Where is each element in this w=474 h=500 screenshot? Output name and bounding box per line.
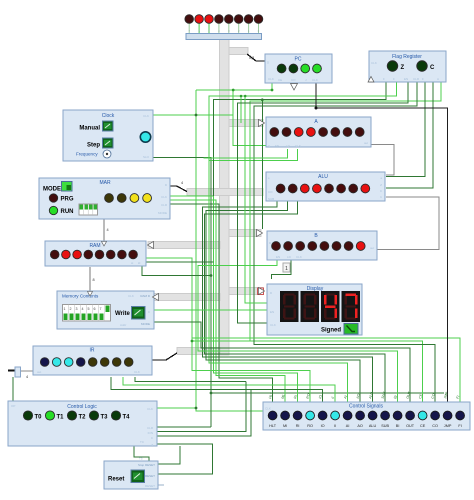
seven-seg digit 4 showing 7 — [342, 291, 361, 322]
bus branch to IR — [177, 348, 220, 355]
junction RO line — [191, 340, 194, 343]
svg-text:SLO: SLO — [143, 155, 150, 159]
svg-text:Reset: Reset — [108, 477, 124, 483]
MAR box — [39, 178, 170, 219]
svg-text:4: 4 — [181, 181, 183, 185]
wire B register output to ALU — [377, 197, 439, 250]
svg-text:CO: CO — [268, 190, 273, 194]
svg-text:T5: T5 — [139, 457, 143, 461]
LED ALU bit5 on — [300, 184, 309, 193]
LED AI — [343, 411, 352, 420]
svg-text:AO: AO — [357, 424, 363, 428]
IR opcode splitter — [15, 367, 21, 377]
LED PRG off — [49, 194, 57, 202]
svg-text:RO: RO — [307, 424, 313, 428]
svg-text:0,3: 0,3 — [249, 56, 254, 60]
svg-text:Stop RESET: Stop RESET — [138, 463, 155, 467]
LED bus bit5 on — [205, 15, 214, 24]
svg-text:CLK: CLK — [147, 407, 153, 411]
LED RAM bit7 — [50, 250, 59, 259]
wire JMP drop — [193, 338, 461, 402]
arrow PC output — [291, 84, 298, 91]
LED clock output — [140, 132, 150, 142]
svg-text:RAM: RAM — [89, 243, 100, 249]
svg-text:T4: T4 — [123, 415, 131, 421]
svg-text:ALU: ALU — [369, 424, 377, 428]
junction corridor A CLK — [232, 89, 235, 92]
svg-text:OP: OP — [11, 404, 15, 408]
wire Control Logic CLK feed — [157, 407, 196, 409]
svg-text:Flag Register: Flag Register — [392, 54, 422, 60]
LED bus bit0 — [254, 15, 263, 24]
svg-text:T0: T0 — [35, 415, 43, 421]
svg-text:CLK: CLK — [312, 78, 318, 82]
svg-text:F: F — [422, 77, 424, 81]
svg-text:2: 2 — [70, 307, 72, 311]
LED bus bit6 on — [195, 15, 204, 24]
svg-text:CLR: CLR — [413, 77, 420, 81]
svg-text:OUT: OUT — [406, 424, 415, 428]
wire A register bottom pin 2 — [204, 149, 288, 158]
svg-text:RAM D: RAM D — [140, 294, 151, 298]
svg-text:Addr: Addr — [120, 323, 126, 327]
svg-text:7: 7 — [100, 307, 102, 311]
bus branch to B register — [229, 230, 261, 237]
LED ALU bit2 — [337, 184, 346, 193]
LED RAM bit4 — [84, 250, 93, 259]
Clock box U_clock — [63, 110, 153, 161]
svg-text:CLR: CLR — [161, 203, 168, 207]
bus output LED row stems — [189, 24, 258, 34]
constant 1 label box — [283, 263, 290, 272]
DIP switch 4x address — [79, 204, 98, 215]
LED RI — [293, 411, 302, 420]
wire A register CLK feed from corridor — [233, 90, 266, 146]
LED ALU bit4 on — [313, 184, 322, 193]
wire SUB feed and drop — [205, 201, 386, 402]
LED A bit4 on — [307, 128, 316, 137]
wire OUT feed from Memory Contents and drop — [154, 322, 410, 402]
svg-text:SUB: SUB — [268, 197, 274, 201]
wire Reset unused stub — [158, 484, 164, 486]
bus branch to MAR and ALU — [187, 189, 263, 196]
B register box — [267, 231, 377, 260]
svg-text:3: 3 — [76, 307, 78, 311]
wire Flag Z input from ALU — [386, 82, 425, 177]
LED bus bit3 — [225, 15, 234, 24]
seven-seg digit 2 (blank) — [301, 291, 320, 322]
Control Signals box — [263, 402, 470, 430]
svg-text:1: 1 — [64, 307, 66, 311]
svg-text:JMP: JMP — [444, 424, 452, 428]
LED ALU bit1 — [349, 184, 358, 193]
wire Reset stop to Control Logic — [158, 446, 180, 464]
svg-text:T3: T3 — [101, 415, 109, 421]
svg-text:IO: IO — [321, 424, 325, 428]
svg-text:CLK: CLK — [268, 77, 274, 81]
svg-text:T1: T1 — [57, 415, 65, 421]
LED RAM bit2 — [106, 250, 115, 259]
wire MAR bus diagonal — [170, 186, 187, 192]
svg-text:MI: MI — [283, 424, 287, 428]
wire RAM right pin 2 — [146, 261, 214, 263]
ALU box — [266, 172, 385, 201]
RAM box — [45, 241, 146, 266]
LED B bit1 — [344, 242, 353, 251]
LED FI — [456, 411, 465, 420]
LED B bit2 — [332, 242, 341, 251]
svg-text:4: 4 — [107, 228, 109, 232]
junction long dark — [210, 392, 213, 395]
switch Signed — [344, 324, 358, 335]
Memory Contents box — [57, 291, 154, 329]
wire IR splitter to IR — [20, 370, 33, 372]
wire AO feed from ALU and drop — [206, 201, 360, 402]
wire Control Logic bottom to Reset top — [134, 446, 149, 461]
svg-text:EN: EN — [270, 310, 274, 314]
svg-text:CLR: CLR — [147, 426, 154, 430]
LED B bit0 on — [356, 242, 365, 251]
svg-text:MODE: MODE — [141, 322, 150, 326]
wire Control Logic pin 2 — [157, 382, 246, 432]
LED ALU bit7 — [276, 184, 285, 193]
svg-text:ION: ION — [148, 431, 153, 435]
wire RAM write line — [142, 265, 211, 276]
wire long dark horizontal to FI drop — [211, 392, 444, 394]
svg-text:Signed: Signed — [321, 328, 341, 334]
wire Control Logic to Reset loop — [157, 444, 213, 474]
arrow bus into RAM — [148, 242, 154, 249]
svg-text:Step: Step — [87, 143, 100, 149]
LED A bit0 — [355, 128, 364, 137]
svg-text:PC: PC — [295, 57, 302, 63]
LED PC bit1 on — [301, 64, 310, 73]
svg-text:out: out — [364, 141, 368, 145]
svg-text:C: C — [430, 65, 435, 71]
LED PC bit3 — [277, 64, 286, 73]
wire corridor vertical to B area — [261, 100, 263, 229]
LED AO — [356, 411, 365, 420]
svg-text:1: 1 — [285, 266, 288, 272]
wire PC bus diagonal — [247, 54, 265, 61]
LED ALU bit0 on — [361, 184, 370, 193]
LED B bit3 — [320, 242, 329, 251]
bus LED row splitter bar — [186, 34, 262, 40]
wire CE long left stub — [192, 340, 250, 342]
LED T1 on — [45, 411, 54, 420]
wire corridor vertical short — [240, 96, 242, 123]
bus branch to A register — [229, 120, 263, 127]
svg-text:Control Logic: Control Logic — [67, 404, 97, 410]
LED bus bit4 — [215, 15, 224, 24]
LED CO — [431, 411, 440, 420]
LED B bit7 — [272, 242, 281, 251]
svg-text:MODE: MODE — [43, 187, 61, 193]
LED RO on — [306, 411, 315, 420]
LED A bit3 — [319, 128, 328, 137]
IR box — [33, 346, 152, 375]
svg-text:EN: EN — [275, 144, 279, 148]
svg-text:CO: CO — [432, 424, 438, 428]
LED PC bit2 — [289, 64, 298, 73]
junction PC black — [315, 107, 318, 110]
wire Flag Register pin staircase 1 — [214, 82, 387, 196]
wire Control Logic pin to bundle — [157, 426, 211, 428]
LED ALU — [368, 411, 377, 420]
LED A bit6 — [282, 128, 291, 137]
knob Frequency — [103, 150, 111, 158]
bus branch to Memory Contents — [152, 294, 220, 301]
LED RAM bit5 on — [73, 250, 82, 259]
wire RO feed from RAM and drop (active) — [146, 258, 310, 402]
LED IR bit7 — [40, 358, 49, 367]
svg-text:4: 4 — [82, 307, 84, 311]
wire IR bus diagonal — [152, 353, 177, 360]
LED IR bit4 — [76, 358, 85, 367]
arrow bus into Display — [259, 288, 265, 295]
Flag Register box — [368, 51, 446, 82]
arrow Memory Contents data input — [88, 292, 93, 297]
svg-text:T2: T2 — [79, 415, 87, 421]
probe marker near Display input — [258, 288, 264, 295]
LED PC bit0 on — [313, 64, 322, 73]
svg-text:CLK: CLK — [128, 294, 134, 298]
LED B bit4 — [308, 242, 317, 251]
svg-text:HLT: HLT — [269, 424, 277, 428]
wire IR splitter input stub — [8, 370, 15, 372]
wire Display input 2 from Memory Contents — [154, 309, 267, 311]
svg-text:BI: BI — [396, 424, 400, 428]
svg-text:6: 6 — [94, 307, 96, 311]
wire RAM data to Memory Contents — [89, 267, 91, 291]
bus trunk vertical main data bus — [220, 37, 230, 355]
LED bus bit7 — [185, 15, 194, 24]
LED IR bit1 — [112, 358, 121, 367]
LED T0 — [23, 411, 32, 420]
svg-text:F: F — [393, 77, 395, 81]
wire Clock second output dark — [153, 158, 211, 428]
pin numbers under bus LEDs — [188, 29, 259, 33]
svg-text:CLK: CLK — [134, 370, 140, 374]
svg-text:EN: EN — [404, 77, 408, 81]
Control Logic box — [8, 401, 157, 447]
LED RUN on — [49, 206, 57, 214]
junction clock CLK — [195, 114, 198, 117]
wire Flag C input from ALU — [386, 82, 433, 188]
DIP switch 8x data — [63, 305, 111, 322]
LED IR bit0 — [124, 358, 133, 367]
LED II on — [331, 411, 340, 420]
LED C off — [417, 61, 427, 71]
switch MODE — [62, 182, 73, 192]
wire Flag Register pin staircase 2 — [209, 82, 397, 161]
button Step — [103, 138, 114, 148]
LED B bit5 — [296, 242, 305, 251]
PC box — [265, 54, 332, 90]
button Reset — [131, 470, 145, 483]
svg-text:IR: IR — [90, 348, 95, 354]
LED MAR bit1 on — [130, 194, 139, 203]
wire IO feed from IR and drop — [111, 377, 323, 402]
wire RI feed and drop — [170, 196, 298, 402]
svg-text:Z: Z — [380, 183, 382, 187]
svg-text:CLK: CLK — [295, 144, 301, 148]
svg-text:SUB: SUB — [381, 424, 389, 428]
wire CO drop — [254, 82, 435, 402]
LED IR bit6 on — [52, 358, 61, 367]
LED A bit1 — [343, 128, 352, 137]
LED bus bit1 — [244, 15, 253, 24]
svg-text:F: F — [383, 77, 385, 81]
svg-text:8: 8 — [93, 278, 95, 282]
wire PC CLK drop — [196, 83, 272, 90]
wire HLT feed and drop — [170, 204, 273, 402]
LED Z off — [387, 61, 397, 71]
LED A bit7 — [270, 128, 279, 137]
LED BI — [393, 411, 402, 420]
wire CLK vertical trunk x196 down to Control Signals — [196, 90, 263, 411]
wire Display enable from corridor — [245, 96, 267, 303]
LED RAM bit0 — [129, 250, 138, 259]
LED IO — [318, 411, 327, 420]
LED OUT — [406, 411, 415, 420]
wire A register output to ALU — [371, 145, 394, 176]
svg-text:MODE: MODE — [158, 211, 167, 215]
svg-text:CE: CE — [420, 424, 426, 428]
LED MI — [281, 411, 290, 420]
wire AI feed from A register and drop — [209, 149, 348, 402]
svg-text:II: II — [334, 424, 336, 428]
svg-text:CLK: CLK — [161, 195, 167, 199]
LED IR bit5 on — [64, 358, 73, 367]
svg-text:FI: FI — [458, 424, 461, 428]
button Manual — [103, 121, 114, 131]
bus branch to RAM — [148, 242, 220, 249]
wire BI feed from B register and drop — [198, 260, 398, 402]
svg-text:ALU: ALU — [318, 174, 328, 180]
junction CLK control logic — [195, 407, 198, 410]
wire ALU-enable feed and drop — [203, 201, 373, 402]
arrow RAM address input — [102, 242, 107, 247]
LED MAR bit2 off — [117, 194, 126, 203]
svg-text:st: st — [131, 261, 134, 265]
LED IR bit3 — [88, 358, 97, 367]
wire CLK net from Clock to corridor — [153, 114, 233, 116]
junction PC clk — [271, 89, 274, 92]
LED SUB — [381, 411, 390, 420]
svg-text:Frequency: Frequency — [76, 152, 98, 157]
svg-text:ld: ld — [138, 261, 141, 265]
svg-text:A: A — [437, 77, 439, 81]
LED T2 — [67, 411, 76, 420]
LED bus bit2 — [234, 15, 243, 24]
rotated net labels above Control Signals — [268, 390, 460, 399]
svg-text:RI: RI — [296, 424, 300, 428]
svg-text:RUN: RUN — [61, 209, 74, 215]
arrow bus into B register — [257, 230, 263, 237]
svg-text:CLK: CLK — [270, 323, 276, 327]
svg-text:PRG: PRG — [61, 197, 74, 203]
junction corridor short — [240, 95, 243, 98]
LED ALU bit3 — [325, 184, 334, 193]
svg-text:CLK: CLK — [143, 114, 149, 118]
svg-text:Write: Write — [115, 311, 131, 317]
Display box — [267, 284, 362, 335]
LED T4 — [111, 411, 120, 420]
bus branch to PC — [229, 48, 248, 55]
svg-text:CLK: CLK — [296, 255, 302, 259]
svg-text:out: out — [37, 370, 41, 374]
arrow bus into A register — [259, 120, 265, 127]
svg-text:Clock: Clock — [102, 113, 115, 119]
wire IR third control line — [135, 377, 246, 382]
wire Display clock from Flag pin via corridor — [237, 82, 408, 323]
bus branch to Display — [229, 288, 263, 295]
svg-text:AI: AI — [346, 424, 350, 428]
arrow Flag Register output — [368, 77, 374, 83]
seven-seg digit 1 (blank) — [280, 291, 299, 322]
LED RAM bit3 — [95, 250, 104, 259]
wire Control Logic pin 3 — [157, 390, 251, 436]
LED ALU bit6 — [288, 184, 297, 193]
wire B constant net — [272, 260, 292, 279]
svg-text:RESET: RESET — [145, 474, 155, 478]
svg-text:CE: CE — [278, 78, 282, 82]
A register box — [266, 117, 371, 148]
svg-text:Manual: Manual — [79, 126, 100, 132]
svg-text:Control Signals: Control Signals — [349, 404, 383, 410]
svg-text:CLK: CLK — [265, 407, 271, 411]
svg-text:4: 4 — [26, 375, 28, 379]
LED RAM bit1 — [118, 250, 127, 259]
svg-text:Memory Contents: Memory Contents — [62, 294, 99, 299]
LED IR bit2 — [100, 358, 109, 367]
LED MAR bit0 on — [143, 194, 152, 203]
LED MAR bit3 off — [105, 194, 114, 203]
LED CE on — [418, 411, 427, 420]
LED RAM bit6 on — [62, 250, 71, 259]
wire II feed from IR and drop (active) — [123, 377, 335, 402]
wire CE feed from Flag Register side and drop (active) — [250, 82, 441, 402]
svg-text:CO: CO — [291, 78, 296, 82]
junction corridor display EN — [244, 95, 247, 98]
LED T3 — [89, 411, 98, 420]
LED A bit5 on — [294, 128, 303, 137]
svg-text:EN: EN — [276, 255, 280, 259]
button Write — [132, 307, 146, 320]
wire JMP net PC J pin to Control Signals (black) — [316, 83, 448, 402]
junction corridor B — [261, 98, 264, 101]
LED B bit6 — [284, 242, 293, 251]
wire MI feed and drop — [170, 200, 285, 402]
arrow bus into Memory Contents — [153, 294, 159, 301]
wire IR splitter down to Control Logic — [12, 377, 14, 401]
LED HLT — [268, 411, 277, 420]
svg-text:Z: Z — [151, 443, 153, 447]
svg-text:RESET: RESET — [145, 484, 155, 488]
LED A bit2 — [331, 128, 340, 137]
LED JMP — [443, 411, 452, 420]
Reset box — [104, 457, 158, 490]
svg-text:CLK: CLK — [371, 61, 377, 65]
seven-seg digit 3 showing 4 — [321, 291, 340, 322]
svg-text:5: 5 — [88, 307, 90, 311]
svg-text:out: out — [370, 246, 374, 250]
svg-text:MAR: MAR — [99, 180, 111, 186]
junction RAM write — [210, 274, 213, 277]
labels control signal names — [269, 424, 462, 428]
svg-text:Z: Z — [401, 65, 405, 71]
